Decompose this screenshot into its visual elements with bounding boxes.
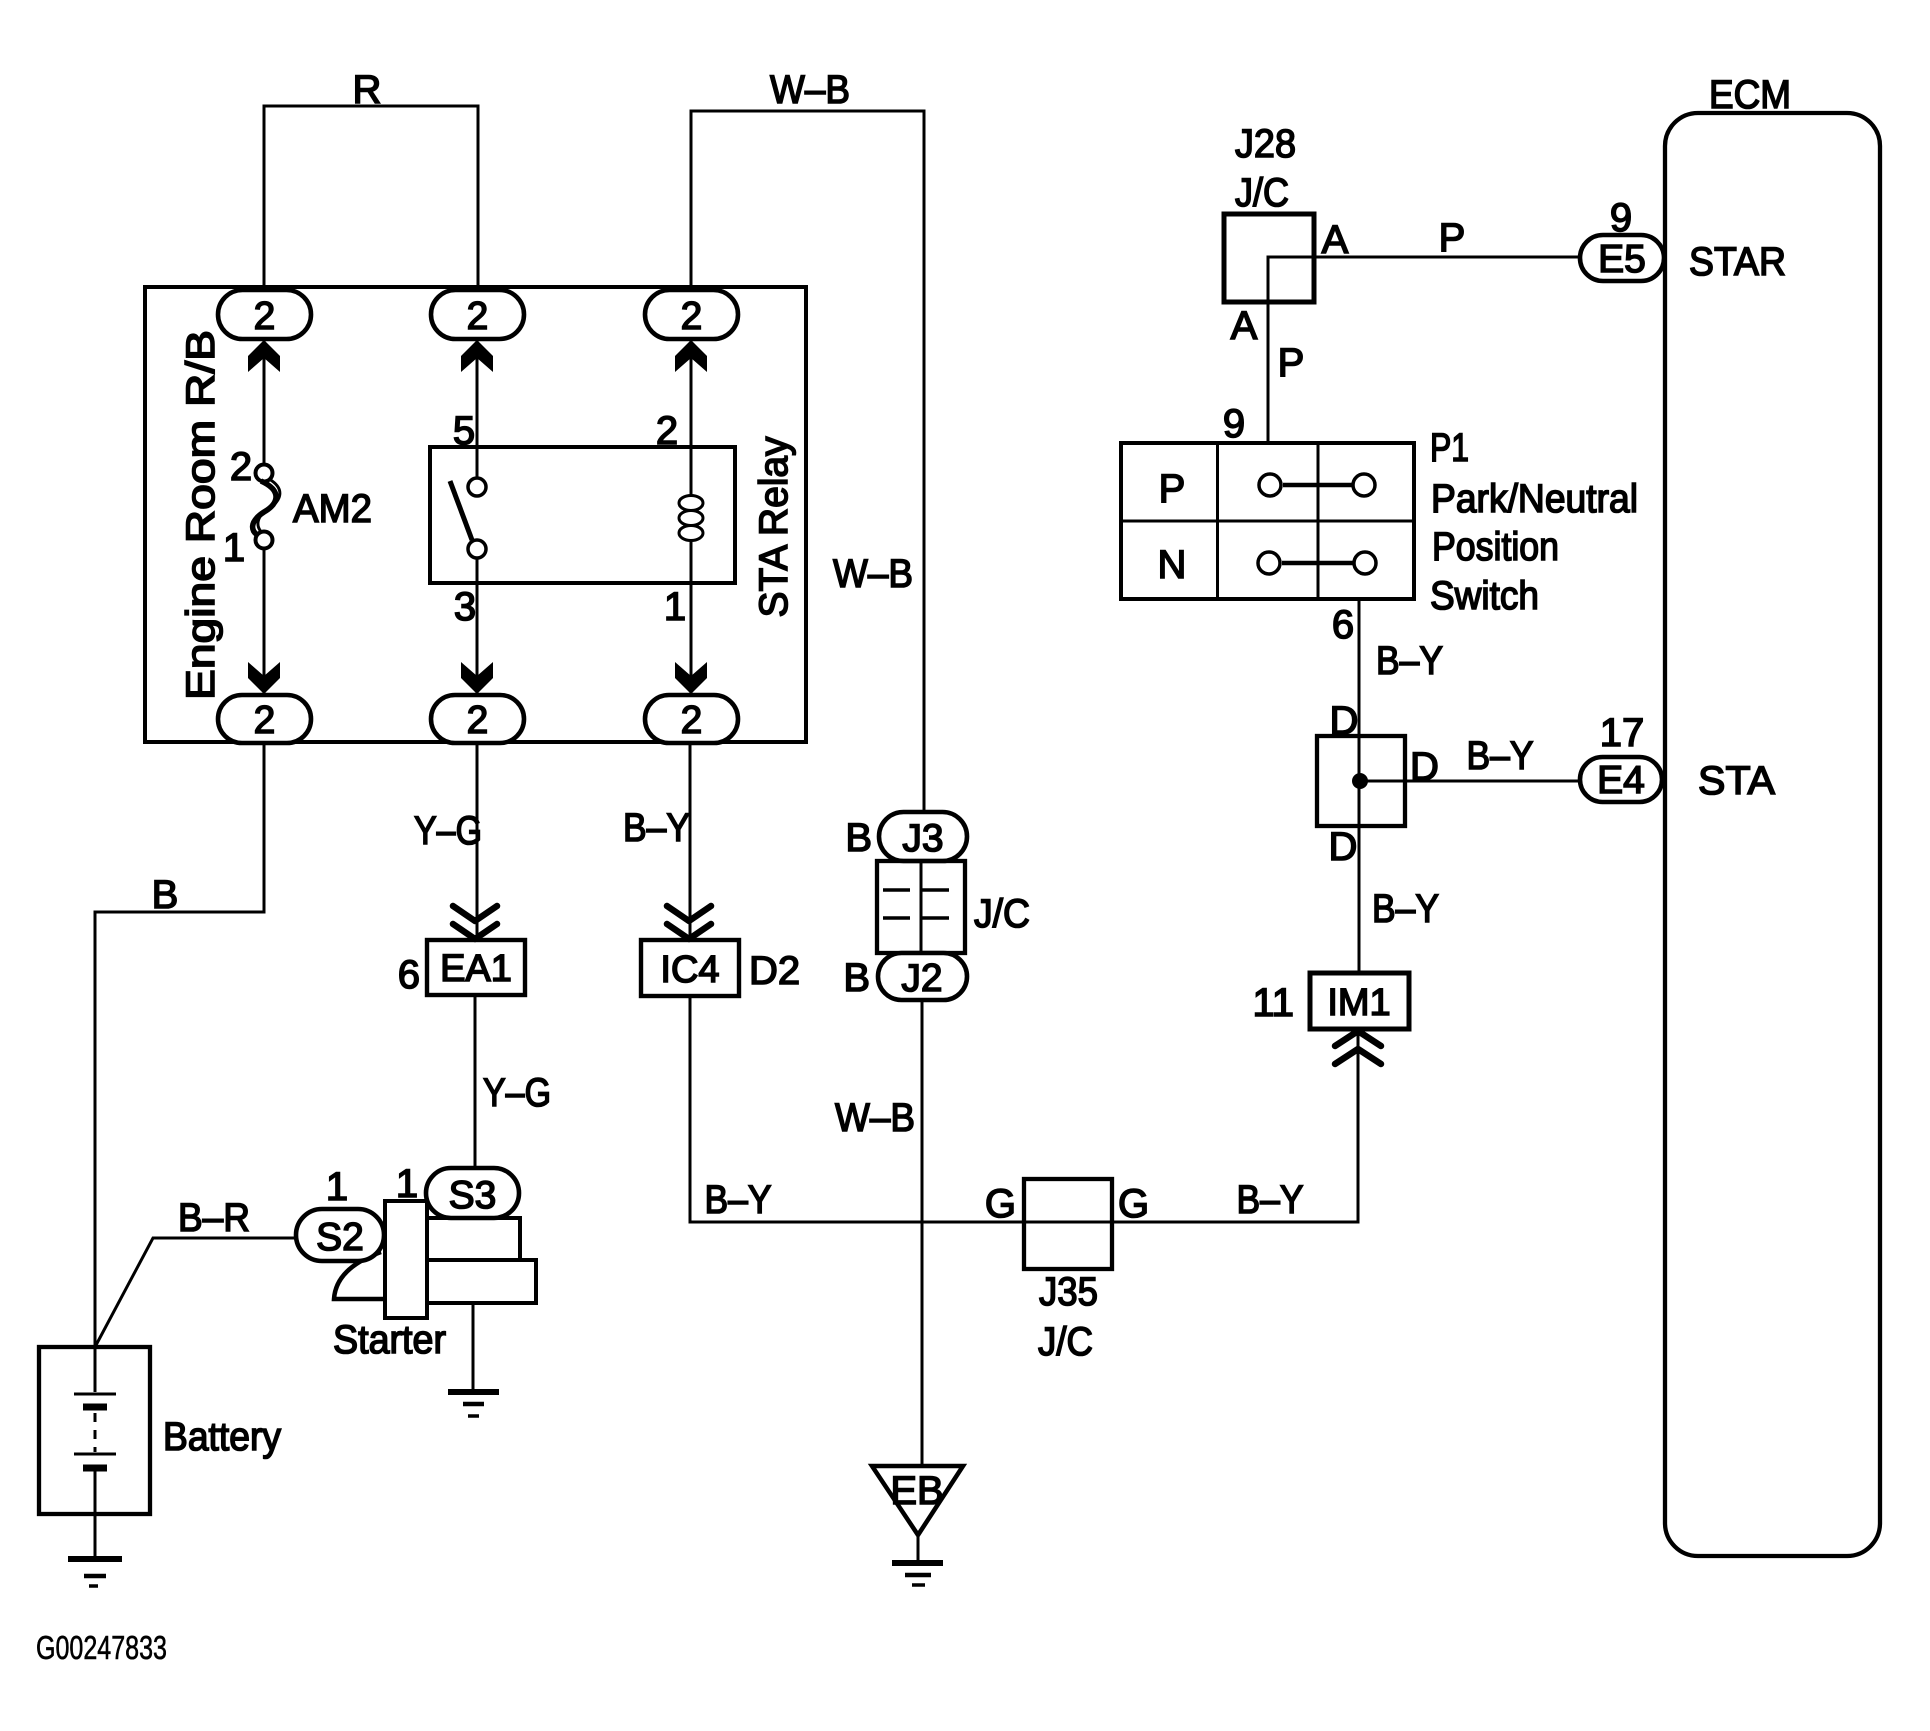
svg-text:Y–G: Y–G <box>414 809 482 853</box>
connector E4 <box>1580 757 1662 802</box>
svg-text:EB: EB <box>890 1469 943 1513</box>
svg-text:B: B <box>152 873 179 917</box>
svg-text:B–Y: B–Y <box>1467 734 1534 778</box>
svg-text:P1: P1 <box>1430 426 1469 470</box>
svg-text:E5: E5 <box>1598 238 1646 281</box>
svg-text:2: 2 <box>254 295 276 338</box>
svg-text:2: 2 <box>254 699 276 742</box>
svg-text:2: 2 <box>681 699 703 742</box>
wire B-Y (D junction to E4) <box>1360 780 1580 783</box>
svg-text:J3: J3 <box>902 817 943 860</box>
svg-text:11: 11 <box>1252 981 1294 1025</box>
wire B-R (battery to S2) <box>95 1238 296 1347</box>
wire B-Y (switch to D junction) <box>1358 599 1361 736</box>
node D (junction dot) <box>1352 773 1368 789</box>
svg-text:R: R <box>353 68 382 112</box>
svg-text:J/C: J/C <box>1038 1320 1093 1364</box>
svg-text:2: 2 <box>681 295 703 338</box>
svg-text:2: 2 <box>467 295 489 338</box>
svg-text:B: B <box>845 816 872 860</box>
svg-text:Starter: Starter <box>333 1318 446 1362</box>
fuse AM2 <box>253 465 280 549</box>
connector J2 <box>878 953 967 1000</box>
starter motor body <box>334 1201 536 1318</box>
wire through J35 <box>1024 1221 1112 1224</box>
svg-text:S3: S3 <box>449 1174 497 1217</box>
svg-text:3: 3 <box>454 585 476 629</box>
wire relay coil column <box>690 339 693 497</box>
svg-text:J/C: J/C <box>1235 171 1289 215</box>
arrow up (relay switch top) <box>461 340 493 372</box>
svg-text:W–B: W–B <box>833 552 913 596</box>
svg-text:2: 2 <box>230 445 252 489</box>
svg-text:IM1: IM1 <box>1327 982 1390 1024</box>
svg-text:J28: J28 <box>1235 122 1296 166</box>
wire B-Y (IC4 to J35) <box>690 996 1024 1222</box>
connector IM1 <box>1310 973 1409 1029</box>
svg-text:Switch: Switch <box>1430 574 1539 618</box>
svg-text:B: B <box>843 956 870 1000</box>
svg-text:6: 6 <box>1332 603 1354 647</box>
relay switch contacts <box>450 478 486 558</box>
connector S2 <box>296 1209 384 1261</box>
svg-text:1: 1 <box>326 1165 348 1209</box>
svg-text:9: 9 <box>1223 402 1245 446</box>
svg-text:D: D <box>1329 825 1358 869</box>
relay coil <box>679 496 703 541</box>
ground (battery) <box>68 1559 122 1586</box>
svg-text:B–R: B–R <box>178 1196 250 1240</box>
arrow down (relay coil bottom) <box>675 662 707 694</box>
relay box STA Relay <box>430 447 735 583</box>
svg-text:P: P <box>1278 341 1305 385</box>
wire inside J28 <box>1268 257 1314 302</box>
wire B-Y (coil connector to IC4) <box>689 743 692 940</box>
junction connector J28 <box>1224 214 1314 302</box>
arrow up (AM2 top) <box>248 340 280 372</box>
svg-text:P: P <box>1159 467 1186 511</box>
wire P (J28 to switch) <box>1267 302 1270 443</box>
svg-text:Y–G: Y–G <box>483 1071 551 1115</box>
switch contact row N <box>1258 552 1376 574</box>
svg-text:17: 17 <box>1600 711 1645 755</box>
svg-text:B–Y: B–Y <box>623 806 690 850</box>
battery <box>39 1347 150 1556</box>
svg-text:S2: S2 <box>316 1216 364 1259</box>
svg-text:6: 6 <box>398 953 420 997</box>
svg-text:B–Y: B–Y <box>705 1178 772 1222</box>
junction box Engine Room R/B <box>145 287 806 742</box>
wire relay switch column <box>476 339 479 478</box>
svg-text:J/C: J/C <box>974 892 1030 936</box>
connector J3 <box>879 812 967 861</box>
connector 2 (bottom of relay switch) <box>431 695 524 743</box>
svg-text:Battery: Battery <box>163 1415 281 1459</box>
svg-text:A: A <box>1231 304 1258 348</box>
svg-text:W–B: W–B <box>835 1096 915 1140</box>
svg-text:B–Y: B–Y <box>1372 887 1439 931</box>
connector 2 (top of relay switch) <box>431 290 524 339</box>
wire Y-G (switch connector to EA1) <box>476 743 479 940</box>
wire through D junction <box>1358 736 1361 826</box>
ECM box <box>1665 113 1880 1556</box>
svg-text:STA Relay: STA Relay <box>752 437 796 618</box>
arrow up (relay coil top) <box>675 340 707 372</box>
connector 2 (top of relay coil) <box>645 290 738 339</box>
connector E5 <box>1580 235 1664 281</box>
svg-text:N: N <box>1158 543 1187 587</box>
connector S3 <box>426 1168 519 1218</box>
svg-text:AM2: AM2 <box>293 487 372 531</box>
wire B-Y (D junction to IM1) <box>1358 826 1361 973</box>
svg-text:W–B: W–B <box>770 68 850 112</box>
wire starter to ground <box>472 1303 475 1390</box>
svg-text:IC4: IC4 <box>660 949 719 991</box>
svg-text:STAR: STAR <box>1689 240 1786 284</box>
svg-text:1: 1 <box>664 585 686 629</box>
wire relay coil to bottom connector <box>690 539 693 694</box>
svg-text:Engine Room R/B: Engine Room R/B <box>179 330 223 700</box>
connector chevrons EA1 <box>453 906 497 939</box>
svg-text:A: A <box>1322 218 1349 262</box>
svg-text:5: 5 <box>453 409 475 453</box>
svg-text:G: G <box>985 1182 1016 1226</box>
wire AM2 to lower connector <box>263 549 266 694</box>
wire B (bus to battery) <box>95 743 264 1347</box>
switch contact row P <box>1259 474 1375 496</box>
svg-text:E4: E4 <box>1597 759 1645 802</box>
svg-text:2: 2 <box>656 409 678 453</box>
wire P (E5 net) <box>1314 256 1580 259</box>
svg-text:ECM: ECM <box>1709 73 1791 117</box>
svg-text:STA: STA <box>1698 759 1775 803</box>
wire W-B (J2 to EB) <box>921 1000 924 1466</box>
svg-text:P: P <box>1439 216 1466 260</box>
connector chevrons IM1 <box>1335 1031 1381 1064</box>
connector chevrons IC4 <box>667 906 711 939</box>
junction J/C box (J3-J2) <box>877 861 965 953</box>
svg-text:J35: J35 <box>1039 1270 1098 1314</box>
svg-text:B–Y: B–Y <box>1237 1178 1304 1222</box>
wire relay switch to bottom connector <box>476 558 479 694</box>
wire AM2 column <box>263 339 266 464</box>
wire B-Y (IM1 to J35) <box>1112 1029 1358 1222</box>
ground EB <box>872 1466 963 1585</box>
svg-text:Position: Position <box>1432 525 1559 569</box>
svg-text:Park/Neutral: Park/Neutral <box>1431 477 1638 521</box>
svg-text:2: 2 <box>467 699 489 742</box>
wire Y-G (EA1 to S3) <box>474 995 477 1168</box>
svg-text:G: G <box>1118 1182 1149 1226</box>
arrow down (AM2 bottom) <box>248 662 280 694</box>
svg-text:D2: D2 <box>749 949 800 993</box>
connector IC4 <box>641 940 739 996</box>
connector 2 (bottom of AM2) <box>218 695 311 743</box>
wire R bus (top left) <box>264 106 478 292</box>
junction connector D <box>1317 736 1405 826</box>
svg-text:G00247833: G00247833 <box>36 1629 167 1666</box>
svg-text:EA1: EA1 <box>440 948 512 990</box>
switch P1 Park/Neutral Position Switch <box>1121 443 1414 599</box>
connector 2 (top of AM2) <box>218 290 311 339</box>
connector EA1 <box>427 940 525 995</box>
svg-text:J2: J2 <box>901 957 942 1000</box>
wire W-B bus (top) <box>691 111 924 814</box>
arrow down (relay switch bottom) <box>461 662 493 694</box>
junction connector J35 <box>1024 1179 1112 1269</box>
svg-text:1: 1 <box>223 526 245 570</box>
svg-text:B–Y: B–Y <box>1376 639 1443 683</box>
connector 2 (bottom of relay coil) <box>645 695 738 743</box>
ground (starter) <box>448 1392 499 1416</box>
